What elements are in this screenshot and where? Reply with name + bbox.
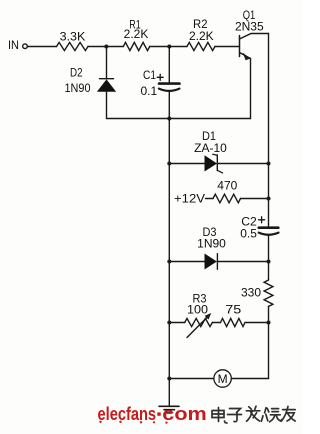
capacitor C2 top plate [259, 226, 279, 229]
svg-text:3.3K: 3.3K [60, 29, 86, 43]
resistor 3.3K [57, 42, 89, 50]
left rail down from mid node [168, 119, 170, 379]
svg-text:D2: D2 [70, 66, 83, 80]
node 75 right junction dot [267, 321, 271, 325]
transistor Q1 emitter arrowhead [243, 53, 251, 61]
wire right rail from collector down [268, 34, 270, 164]
plus sign C1 [157, 76, 163, 78]
watermark elecfans logo [98, 404, 207, 424]
resistor R1 [123, 42, 149, 50]
wire C1 to mid wire [168, 92, 170, 119]
wire D3 to right rail [217, 261, 268, 263]
bottom wire right of motor [231, 378, 268, 380]
wire 330 to 75 row [268, 306, 270, 322]
node D3 left junction dot [167, 260, 171, 264]
zener D1 cathode bar [216, 155, 218, 171]
svg-text:2N35: 2N35 [235, 20, 264, 34]
svg-text:M: M [218, 372, 228, 386]
char 电 [212, 408, 227, 424]
wire 3.3K to node A [88, 46, 106, 48]
zener D1 triangle [205, 156, 216, 171]
wire D2 to mid wire [107, 91, 170, 118]
diode D3 cathode bar [216, 254, 218, 270]
resistor 330 vertical [264, 280, 273, 306]
right rail to C2 [268, 164, 270, 227]
zener D1 bottom bend [217, 170, 222, 173]
wire node B to R2 [169, 46, 187, 48]
node D3 right junction dot [267, 260, 271, 264]
node A junction dot [104, 45, 108, 49]
svg-text:elecfans: elecfans [98, 404, 157, 424]
plus sign C2 [259, 219, 265, 221]
resistor 75 [221, 318, 246, 326]
svg-text:100: 100 [187, 303, 208, 317]
potentiometer R3 arrow line [187, 316, 208, 337]
wire left rail to D1 [169, 163, 205, 165]
transistor Q1 emitter lead with arrow [240, 53, 251, 59]
node D1 right junction dot [267, 162, 271, 166]
node bottom left junction dot [167, 377, 171, 381]
diode D2 cathode bar [100, 78, 114, 80]
wire C2 down to D3 row [268, 236, 270, 262]
node R3 left junction dot [167, 321, 171, 325]
svg-text:C1: C1 [143, 68, 156, 82]
diode D3 triangle [205, 254, 216, 269]
wire R1 to node B [150, 46, 170, 48]
motor M1 circle [214, 370, 231, 387]
terminal IN [23, 44, 28, 49]
zener D1 top bend [213, 154, 218, 155]
capacitor C2 bottom plate [259, 233, 279, 235]
node C junction dot mid [167, 117, 171, 121]
potentiometer R3 arrowhead [205, 313, 212, 320]
svg-text:470: 470 [217, 178, 237, 192]
node D1 left junction dot [167, 162, 171, 166]
bottom wire left of motor [169, 378, 214, 380]
transistor Q1 collector lead [240, 34, 269, 40]
ground stub [168, 379, 170, 406]
wire 75 to right rail [245, 322, 269, 324]
svg-text:+12V: +12V [174, 192, 205, 206]
diode D2 triangle [98, 80, 116, 91]
ground bar 3 [167, 412, 172, 414]
svg-text:IN: IN [8, 38, 19, 52]
wire D2 branch down from node A [106, 47, 108, 79]
wire IN to 3.3K [27, 46, 56, 48]
svg-text:75: 75 [225, 303, 241, 317]
wire left rail to R3 [169, 322, 184, 324]
svg-text:2.2K: 2.2K [189, 29, 214, 43]
watermark chinese 电子发烧友 [212, 406, 295, 423]
right rail to bottom [268, 323, 270, 379]
svg-text:330: 330 [241, 286, 261, 300]
svg-text:1N90: 1N90 [197, 237, 226, 251]
wire +12V lead [206, 198, 214, 200]
svg-text:2.2K: 2.2K [124, 27, 149, 41]
node 470 junction dot [267, 197, 271, 201]
transistor Q1 base bar [239, 36, 241, 57]
wire left rail to D3 [169, 261, 205, 263]
wire Q1 emitter down [250, 59, 252, 119]
svg-text:com: com [162, 404, 207, 424]
svg-text:1N90: 1N90 [65, 81, 91, 95]
wire D1 to right rail [217, 163, 268, 165]
svg-text:ZA-10: ZA-10 [194, 141, 227, 155]
node B junction dot [167, 45, 171, 49]
wire 470 to right rail [241, 198, 269, 200]
char 发 [246, 406, 260, 421]
wire R2 to Q1 base [215, 46, 240, 48]
char 子 [228, 409, 242, 422]
ground bar 2 [164, 409, 175, 411]
wire right rail to 330 [268, 262, 270, 281]
ground bar 1 [159, 405, 179, 407]
char 烧 [261, 408, 281, 422]
capacitor C1 bottom plate [159, 89, 180, 91]
capacitor C1 top plate [159, 82, 180, 85]
wire node A to R1 [106, 46, 123, 48]
char 友 [282, 406, 296, 421]
svg-text:0.1: 0.1 [140, 84, 157, 98]
resistor R2 [187, 42, 215, 50]
wire R3 to 75 [212, 322, 220, 324]
wire node B down to C1 [168, 47, 170, 83]
wire mid node to emitter rail [169, 118, 250, 120]
svg-text:0.5: 0.5 [240, 227, 257, 241]
resistor 470 [213, 194, 241, 203]
potentiometer R3 zigzag [185, 318, 213, 326]
